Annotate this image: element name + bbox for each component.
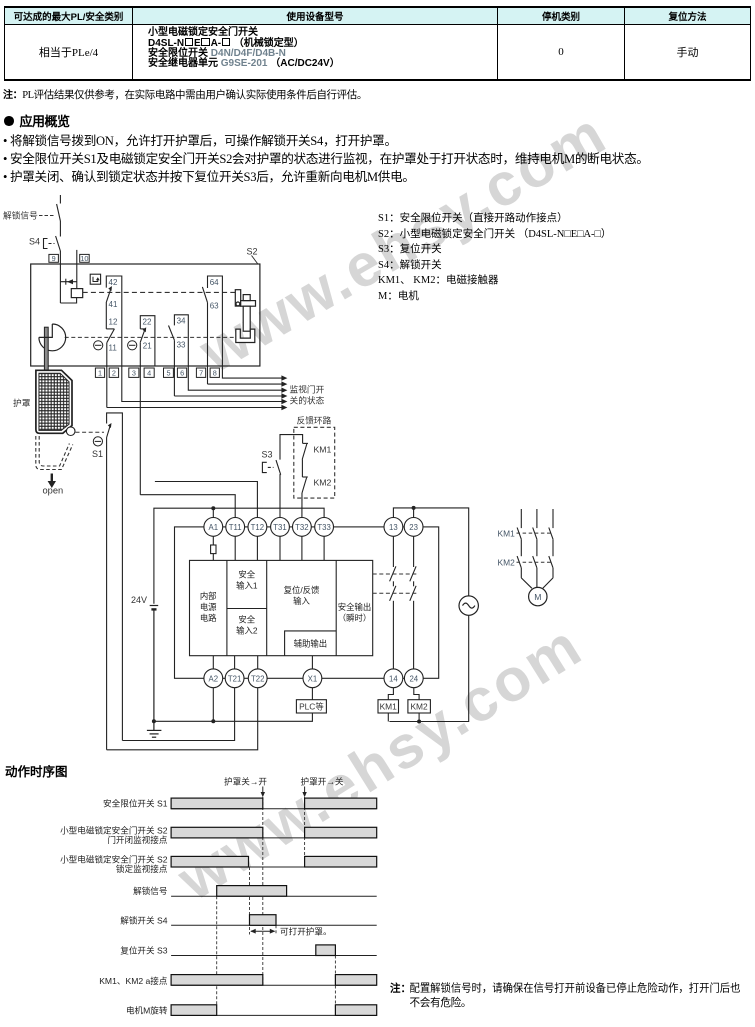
label 64 [210, 278, 219, 287]
svg-text:open: open [43, 486, 64, 496]
wire 14 to KM1 coil [388, 688, 393, 700]
svg-text:5: 5 [166, 368, 170, 377]
coil KM1 box [378, 700, 399, 713]
switch S3 reset [262, 460, 280, 475]
svg-text:电源: 电源 [200, 602, 217, 612]
terminal 7 [196, 368, 205, 377]
signal bar S3 [316, 945, 336, 956]
signal bars S2 lock monitor [171, 856, 377, 867]
feedback loop dashed box 反馈环路 [294, 427, 335, 498]
junction dot A2 on ground rail [211, 719, 215, 723]
wire KM2 to T32 [301, 493, 303, 518]
wire S3 bottom to T31 [279, 475, 282, 518]
terminal 5 [164, 368, 174, 377]
watermark www.ehsy.com (top) [188, 98, 618, 386]
svg-text:23: 23 [409, 523, 418, 532]
svg-text:3: 3 [132, 368, 136, 377]
svg-text:42: 42 [109, 278, 118, 287]
label KM1 (contactor) [498, 529, 516, 539]
terminal 2 [109, 368, 118, 377]
svg-text:KM1、KM2 a接点: KM1、KM2 a接点 [99, 975, 168, 986]
monitor arrow line from terminal 6 [188, 366, 287, 393]
signal bars KM1 KM2 [171, 975, 377, 986]
svg-text:关的状态: 关的状态 [290, 394, 325, 405]
switch S1 blade [107, 423, 112, 438]
plunger symbol (manual release) [60, 279, 76, 285]
direct-opening symbol near 11 [94, 341, 103, 350]
wire lead to terminal 5 [173, 340, 175, 396]
wire terminal4 to T12 [155, 482, 258, 518]
label 24V [131, 595, 147, 605]
wire terminal 10 stub [76, 250, 78, 289]
svg-text:KM1: KM1 [314, 445, 332, 455]
terminal 13 [384, 518, 403, 537]
bullets [3, 130, 397, 149]
contact 22-21 blade [140, 327, 146, 342]
svg-text:S4: S4 [29, 237, 40, 247]
guard open dashed outline [36, 436, 73, 470]
signal bar S4 [250, 915, 277, 926]
svg-text:24: 24 [409, 675, 418, 684]
svg-text:KM1: KM1 [380, 702, 398, 712]
label 63 [210, 302, 219, 311]
wire lead to terminal 3 [139, 342, 141, 495]
contact KM2 NC [302, 477, 308, 493]
cam notch lines [39, 324, 52, 337]
svg-text:护罩开→关: 护罩开→关 [301, 775, 344, 786]
svg-text:辅助输出: 辅助输出 [294, 639, 328, 649]
terminal 23 [404, 518, 423, 537]
svg-text:解锁开关 S4: 解锁开关 S4 [120, 915, 167, 926]
monitor arrow line from terminal 8 [222, 366, 287, 381]
cam mechanism circle [39, 324, 66, 351]
wires A2 T21 T22 X1 from block bottom [213, 656, 312, 669]
dashed actuation line solenoid-to-lock [83, 291, 236, 293]
wire A2 down [212, 688, 214, 722]
svg-text:T22: T22 [251, 675, 264, 684]
battery 24V [150, 606, 159, 722]
svg-text:监视门开: 监视门开 [290, 383, 325, 394]
svg-text:41: 41 [109, 300, 118, 309]
wire S1 left to T22 [107, 688, 258, 750]
svg-text:T11: T11 [229, 523, 242, 532]
signal bars S1 [171, 798, 377, 809]
spring-return symbol box [90, 274, 100, 284]
direct-opening symbol S1 [93, 437, 102, 446]
svg-text:33: 33 [177, 341, 186, 350]
fuse on A1 lead [211, 536, 216, 560]
terminal A2 [204, 669, 223, 688]
svg-text:X1: X1 [308, 675, 318, 684]
operation key bar [44, 327, 48, 371]
wires converge to motor [521, 578, 553, 588]
label 可打开护罩 [280, 926, 332, 937]
wire 24 to KM2 coil [414, 688, 419, 700]
switch S4 actuator bracket [44, 239, 55, 249]
wire S1 right to T21 [122, 688, 234, 741]
dashed transition guides [217, 797, 336, 1009]
terminal 3 [129, 368, 139, 377]
note under table [3, 86, 367, 102]
monitor arrow line from terminal 5 [174, 393, 287, 398]
terminal T12 [248, 518, 267, 537]
coil KM2 box [408, 700, 431, 713]
junction dot above A1 [211, 506, 215, 510]
label 安全输入1 [236, 570, 258, 591]
label 内部电源电路 [200, 591, 217, 623]
svg-text:复位开关 S3: 复位开关 S3 [120, 945, 167, 956]
svg-text:解锁信号: 解锁信号 [3, 210, 38, 221]
terminal T22 [248, 669, 267, 688]
contact 42-41 blade [106, 286, 112, 302]
timing baselines [171, 809, 377, 1016]
wire lead to terminal 1 [106, 343, 108, 408]
svg-text:注：: 注： [390, 982, 411, 995]
label S2 with leader [247, 247, 258, 264]
wire KM2 coil to rail with dot [417, 713, 421, 724]
label 辅助输出 [294, 639, 328, 649]
svg-text:配置解锁信号时，请确保在信号打开前设备已停止危险动作，打开门: 配置解锁信号时，请确保在信号打开前设备已停止危险动作，打开门后也 [410, 982, 741, 995]
svg-text:内部: 内部 [200, 591, 217, 601]
label KM2 (feedback) [314, 478, 332, 488]
spec table [4, 6, 751, 81]
label guard open-to-close with arrow [301, 775, 344, 797]
switch unlock-signal contact [57, 204, 61, 221]
label S4 [29, 237, 40, 247]
PLC box [296, 700, 326, 713]
guard roller [66, 427, 75, 436]
svg-text:T31: T31 [273, 523, 286, 532]
svg-text:安全输出: 安全输出 [338, 602, 372, 612]
wires T11 T12 T31 T32 T33 into block [235, 536, 324, 560]
terminal 1 [95, 368, 104, 377]
label 21 [143, 341, 152, 350]
svg-text:11: 11 [109, 343, 118, 352]
safety output contact 13-14 [390, 536, 396, 669]
svg-text:A2: A2 [209, 675, 219, 684]
label 33 [177, 341, 186, 350]
svg-text:T21: T21 [228, 675, 241, 684]
wire S1 lower lead [106, 438, 108, 750]
terminal A1 [204, 518, 223, 537]
section heading [4, 111, 70, 130]
ground rail to PLC [154, 713, 313, 721]
svg-text:电路: 电路 [200, 613, 217, 623]
svg-text:T32: T32 [295, 523, 308, 532]
wire rail to A1 [212, 508, 214, 517]
dashed roller-to-S1 link [76, 431, 105, 433]
label KM1 (feedback) [314, 445, 332, 455]
svg-text:锁定监视接点: 锁定监视接点 [116, 863, 168, 874]
label 护罩 [13, 397, 31, 408]
wire S3 top to KM chain [280, 435, 303, 460]
label 42 [109, 278, 118, 287]
svg-text:小型电磁锁定安全门开关 S2: 小型电磁锁定安全门开关 S2 [60, 825, 168, 836]
svg-text:S1: S1 [92, 449, 103, 459]
signal bar unlock signal [217, 886, 287, 897]
terminal T21 [225, 669, 244, 688]
label 安全输出（瞬时） [338, 602, 372, 623]
label 12 [109, 318, 118, 327]
svg-text:安全限位开关 S1: 安全限位开关 S1 [103, 798, 168, 809]
terminal 6 [177, 368, 186, 377]
output rail 13-23 [393, 508, 468, 596]
annotation openable span arrows [250, 929, 275, 934]
ground symbol [147, 719, 162, 737]
svg-text:64: 64 [210, 278, 219, 287]
label S3 [262, 450, 273, 460]
svg-text:21: 21 [143, 341, 152, 350]
svg-text:13: 13 [389, 523, 398, 532]
svg-text:12: 12 [109, 318, 118, 327]
svg-text:S2: S2 [247, 247, 258, 257]
contactor KM1 three-phase contacts [517, 509, 553, 556]
KM1 mechanical dashed link [517, 532, 552, 534]
junction dot above 23 [412, 506, 416, 510]
svg-text:KM1: KM1 [498, 529, 516, 539]
svg-text:24V: 24V [131, 595, 147, 605]
terminal T32 [293, 518, 312, 537]
monitor arrow line from terminal 1 [107, 405, 288, 410]
contact 42-41 terminal frame [106, 276, 122, 366]
lock mechanism drawing [235, 290, 255, 343]
watermark www.ehsy.com (bottom) [166, 610, 595, 914]
timing heading [5, 761, 68, 780]
inner function block box [190, 560, 373, 655]
svg-text:可打开护罩。: 可打开护罩。 [280, 926, 332, 937]
terminal T31 [271, 518, 290, 537]
safety output contact 23-24 [410, 536, 416, 669]
dashed actuation line cam-to-lock [65, 336, 236, 338]
svg-text:安全: 安全 [238, 570, 255, 580]
svg-text:22: 22 [143, 318, 152, 327]
svg-text:护罩: 护罩 [13, 397, 31, 408]
svg-text:输入2: 输入2 [236, 626, 258, 636]
svg-text:电机M旋转: 电机M旋转 [126, 1005, 168, 1016]
label door monitor status [290, 383, 325, 405]
terminal T11 [226, 518, 245, 537]
monitor arrow line from terminal 7 [208, 381, 288, 386]
label 安全输入2 [236, 615, 258, 636]
svg-text:4: 4 [147, 368, 151, 377]
svg-text:34: 34 [177, 317, 186, 326]
svg-text:M: M [534, 592, 541, 602]
terminal 9 [49, 254, 59, 263]
direct-opening symbol near 21 [128, 341, 137, 350]
contact 34-33 terminal frame [174, 315, 188, 366]
wire rail to 23 [413, 508, 415, 518]
contactor KM2 three-phase contacts [517, 556, 553, 588]
signal bars motor M [171, 1005, 377, 1016]
solenoid coil [71, 289, 82, 298]
wire X1 to PLC [311, 688, 313, 700]
signal bars S2 door monitor [171, 827, 377, 838]
label guard close-to-open with arrow [224, 775, 267, 797]
svg-text:7: 7 [199, 368, 203, 377]
svg-text:9: 9 [52, 254, 56, 263]
wire terminal3 to T11 [140, 495, 235, 518]
label 22 [143, 318, 152, 327]
motor M [529, 587, 547, 605]
svg-text:（瞬时）: （瞬时） [338, 613, 372, 623]
node unlock mid wire [59, 221, 61, 237]
terminal T33 [315, 518, 334, 537]
svg-text:输入1: 输入1 [236, 581, 258, 591]
svg-text:解锁信号: 解锁信号 [133, 885, 167, 896]
note 注 [390, 982, 741, 1009]
terminal 14 [384, 669, 403, 688]
svg-text:A1: A1 [209, 523, 219, 532]
wire lead to terminal 7 [207, 303, 209, 385]
svg-text:S3: S3 [262, 450, 273, 460]
label unlock signal 解锁信号 [3, 210, 55, 221]
contact KM1 NC [302, 443, 308, 459]
label 41 [109, 300, 118, 309]
label S1 [92, 449, 103, 459]
24V supply rail [154, 508, 324, 604]
monitor arrow line from terminal 2 [122, 366, 288, 404]
switch S1 bracket wire [107, 413, 123, 741]
switch S4 blade [56, 236, 61, 251]
label 复位/反馈输入 [284, 585, 320, 606]
svg-text:T12: T12 [251, 523, 264, 532]
contact 34-33 blade [169, 326, 175, 341]
wire solenoid bottom link [60, 298, 76, 303]
svg-text:复位/反馈: 复位/反馈 [284, 585, 320, 595]
svg-text:PLC等: PLC等 [299, 702, 324, 712]
svg-text:T33: T33 [317, 523, 330, 532]
switch S2 enclosure box [31, 264, 260, 366]
wire unlock-signal vertical [59, 195, 61, 204]
AC source circle [459, 596, 478, 615]
label 34 [177, 317, 186, 326]
contact 22-21 terminal frame [140, 316, 155, 366]
svg-text:KM2: KM2 [314, 478, 332, 488]
terminal 10 [80, 254, 90, 263]
contact 12-11 blade [106, 329, 114, 343]
dashed output actuation lines [373, 574, 418, 593]
svg-text:KM2: KM2 [498, 558, 516, 568]
svg-text:安全: 安全 [238, 615, 255, 625]
svg-text:10: 10 [80, 254, 88, 263]
contact 64-63 terminal frame [208, 276, 223, 366]
svg-text:不会有危险。: 不会有危险。 [410, 996, 472, 1009]
svg-text:8: 8 [213, 368, 217, 377]
contact 64-63 blade [202, 287, 207, 303]
terminal 24 [404, 669, 423, 688]
wire AC to bottom rail [389, 615, 468, 721]
terminal X1 [303, 669, 322, 688]
terminal 4 [144, 368, 154, 377]
svg-text:反馈环路: 反馈环路 [297, 415, 332, 426]
svg-text:门开闭监视接点: 门开闭监视接点 [107, 834, 168, 845]
svg-text:63: 63 [210, 302, 219, 311]
svg-text:KM2: KM2 [410, 702, 428, 712]
svg-text:输入: 输入 [293, 596, 310, 606]
svg-text:护罩关→开: 护罩关→开 [224, 775, 267, 786]
label 反馈环路 [297, 415, 332, 426]
wire KM1-KM2 link [301, 460, 303, 478]
label KM2 (contactor) [498, 558, 516, 568]
terminal 8 [210, 368, 219, 377]
wire KM1 coil to rail [387, 713, 389, 722]
svg-text:6: 6 [180, 368, 184, 377]
label open [43, 486, 64, 496]
timing row labels [60, 798, 168, 1016]
KM2 mechanical dashed link [517, 561, 552, 563]
label 11 [109, 343, 118, 352]
wire S4 to terminal 9 [59, 251, 61, 303]
svg-text:2: 2 [112, 368, 116, 377]
wire 41-12 lead [105, 302, 107, 329]
svg-text:14: 14 [389, 675, 398, 684]
legend [378, 211, 611, 304]
open arrow [48, 474, 56, 489]
guard 护罩 hatched door [36, 370, 72, 433]
svg-text:小型电磁锁定安全门开关 S2: 小型电磁锁定安全门开关 S2 [60, 854, 168, 865]
svg-text:1: 1 [98, 368, 102, 377]
relay unit G9SE outline [175, 527, 439, 678]
